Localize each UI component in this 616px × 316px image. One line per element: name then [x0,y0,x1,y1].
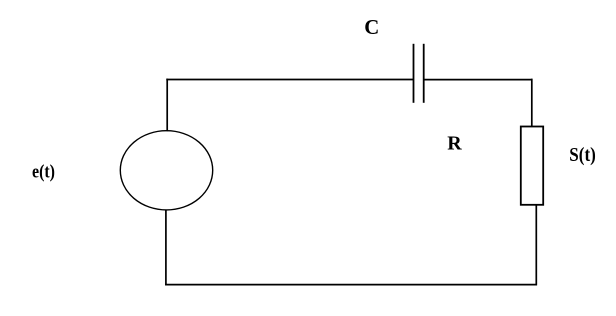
svg-text:e(t): e(t) [32,162,55,183]
label S(t) [569,144,596,166]
label C [364,16,379,39]
resistor R body [521,127,543,205]
svg-text:S(t): S(t) [569,144,596,166]
capacitor C left plate [413,44,415,103]
wire top-right horizontal segment [424,79,533,81]
wire lower-right vertical segment [535,205,537,286]
wire lower-left vertical segment [165,210,167,286]
wire upper-right vertical segment [531,79,533,127]
svg-text:R: R [447,133,462,155]
wire top-left horizontal segment [166,79,413,81]
svg-text:C: C [364,16,379,39]
label R [447,133,462,155]
voltage source e(t) [120,131,212,210]
label e(t) [32,162,55,183]
wire upper-left vertical segment [166,79,168,132]
wire bottom horizontal segment [165,284,537,286]
capacitor C right plate [423,44,425,103]
